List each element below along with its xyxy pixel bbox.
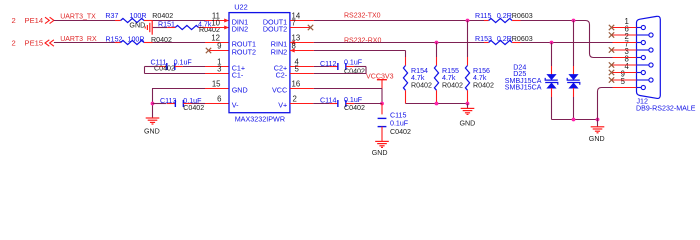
svg-text:R37: R37	[105, 12, 118, 20]
pin 1 stub	[205, 66, 229, 68]
svg-text:0.1uF: 0.1uF	[344, 59, 363, 67]
resistor R152 100R R0402	[115, 42, 121, 44]
connector J12 DB9 shell	[637, 16, 661, 98]
ground below pull resistors	[467, 104, 469, 109]
pin 6 stub	[205, 103, 229, 105]
svg-text:R0402: R0402	[152, 12, 173, 20]
junction D25 rail	[572, 118, 576, 122]
resistor R37 100R R0402	[115, 20, 121, 22]
pin 2 stub	[290, 103, 313, 105]
resistor R156 4.7k R0402	[467, 21, 469, 58]
svg-text:GND: GND	[372, 149, 388, 157]
svg-text:GND: GND	[232, 86, 248, 95]
svg-text:0.2R: 0.2R	[497, 35, 512, 43]
diode D25 SMBJ15CA	[573, 21, 575, 67]
svg-text:15: 15	[212, 79, 221, 88]
pin 14 stub	[290, 20, 314, 22]
wire UART3_TX	[54, 20, 115, 22]
capacitor C112 0.1uF C0402	[314, 66, 330, 68]
resistor R154 4.7k R0402	[405, 57, 407, 66]
svg-text:2: 2	[12, 16, 16, 25]
svg-text:R153: R153	[475, 35, 492, 43]
svg-text:0.1uF: 0.1uF	[174, 58, 193, 66]
svg-text:V+: V+	[278, 101, 287, 110]
wire R115 to connector	[521, 20, 586, 22]
wire pin 15 to ground	[152, 88, 205, 90]
no-connect marks on J12	[609, 25, 614, 30]
svg-text:10: 10	[211, 18, 220, 27]
wire R37 to pin 11	[153, 20, 206, 22]
op-amp U22 MAX3232IPWR body	[229, 13, 290, 113]
svg-text:100R: 100R	[130, 12, 147, 20]
pin 15 stub	[205, 88, 229, 90]
resistor R155 4.7k R0402	[436, 43, 438, 58]
svg-text:16: 16	[292, 79, 301, 88]
svg-text:4: 4	[624, 62, 629, 71]
junction R156 tap	[466, 19, 470, 23]
svg-text:GND: GND	[460, 120, 476, 128]
wire C112 right loop	[365, 67, 367, 74]
resistor R151 4.7k R0402	[153, 27, 167, 29]
wire pin 5 to rail	[598, 88, 613, 120]
capacitor C113 0.1uF C0402	[153, 103, 167, 105]
connector pin stubs	[612, 27, 637, 29]
svg-text:RS232-RX0: RS232-RX0	[344, 37, 381, 44]
svg-text:5: 5	[621, 77, 626, 86]
pin 12 stub	[205, 42, 229, 44]
svg-text:PE15: PE15	[25, 39, 44, 48]
svg-text:C0402: C0402	[154, 65, 175, 73]
svg-text:3: 3	[217, 64, 221, 73]
ground GND below pin 15	[146, 117, 160, 119]
pin 16 stub	[290, 88, 314, 90]
svg-text:DIN2: DIN2	[232, 25, 248, 34]
svg-text:C1-: C1-	[232, 71, 244, 80]
svg-text:V-: V-	[232, 101, 239, 110]
wire pin 16 to VCC	[314, 88, 382, 90]
pin 8 stub with input arrow	[290, 50, 314, 52]
svg-text:R0402: R0402	[411, 82, 432, 90]
pin 10 stub with input arrow	[205, 27, 229, 29]
wire TX0 down to pin3	[586, 21, 613, 58]
pin 11 stub with input arrow	[205, 20, 229, 22]
pin 9 stub with no-connect	[209, 50, 230, 52]
svg-text:R0402: R0402	[473, 82, 494, 90]
svg-text:R115: R115	[475, 12, 491, 20]
svg-text:C113: C113	[160, 97, 176, 105]
svg-text:8: 8	[292, 41, 296, 50]
capacitor C111 0.1uF C0402	[159, 66, 167, 68]
junction rail R156	[466, 102, 470, 106]
junction C113-GND	[151, 102, 155, 106]
svg-text:C112: C112	[320, 60, 336, 68]
svg-text:0.2R: 0.2R	[497, 12, 512, 20]
svg-text:5: 5	[295, 64, 300, 73]
svg-text:C0402: C0402	[183, 104, 204, 112]
junction D25 tap	[572, 19, 576, 23]
svg-text:C114: C114	[320, 97, 336, 105]
resistor R115 0.2R R0603	[484, 20, 489, 22]
junction V+ node	[380, 102, 384, 106]
svg-text:9: 9	[217, 41, 221, 50]
pin 13 stub with input arrow	[290, 42, 314, 44]
wire resistor bottom rail	[406, 103, 468, 105]
wire RS232-RX0	[314, 42, 484, 44]
svg-text:PE14: PE14	[25, 16, 44, 25]
svg-text:R151: R151	[158, 21, 175, 29]
ground below rail	[597, 120, 599, 127]
capacitor C115 0.1uF C0402	[381, 104, 383, 115]
connector pin circles	[637, 27, 642, 29]
svg-text:RS232-TX0: RS232-TX0	[344, 13, 381, 20]
svg-text:R0402: R0402	[442, 82, 463, 90]
wire UART3_RX	[54, 42, 115, 44]
junction R155 tap	[435, 41, 439, 45]
wire C111 left loop	[145, 66, 159, 68]
svg-text:C2-: C2-	[276, 71, 288, 80]
pin 3 stub	[205, 73, 229, 75]
junction rail R155	[435, 102, 439, 106]
svg-text:DOUT2: DOUT2	[263, 25, 287, 34]
ground below C115	[375, 140, 389, 142]
svg-text:0.1uF: 0.1uF	[390, 120, 409, 128]
svg-text:RIN2: RIN2	[271, 48, 287, 57]
pin 4 stub	[290, 66, 314, 68]
svg-text:R0603: R0603	[512, 12, 533, 20]
wire diode ground rail	[552, 119, 598, 121]
svg-text:100R: 100R	[128, 35, 145, 43]
svg-text:7: 7	[292, 18, 296, 27]
svg-text:C0402: C0402	[344, 68, 365, 76]
wire C111 to pin 1	[183, 66, 205, 68]
svg-text:SMBJ15CA: SMBJ15CA	[505, 83, 542, 91]
svg-text:GND: GND	[129, 21, 145, 29]
svg-text:R0603: R0603	[512, 35, 533, 43]
svg-text:6: 6	[217, 94, 221, 103]
svg-text:VCC: VCC	[272, 86, 287, 95]
resistor R153 0.2R R0603	[484, 42, 489, 44]
wire R153 to connector pin2	[521, 42, 613, 44]
pin 7 stub with no-connect	[290, 27, 311, 29]
svg-text:2: 2	[293, 94, 297, 103]
wire R152 to pin 12	[153, 42, 206, 44]
junction D24 tap	[550, 41, 554, 45]
wire pin 8 to R154	[314, 50, 406, 52]
svg-text:DB9-RS232-MALE: DB9-RS232-MALE	[636, 105, 696, 113]
svg-text:U22: U22	[234, 2, 248, 11]
svg-text:2: 2	[12, 39, 16, 48]
svg-text:GND: GND	[144, 128, 160, 136]
svg-text:R152: R152	[106, 35, 123, 43]
svg-text:GND: GND	[589, 135, 605, 143]
svg-text:C0402: C0402	[344, 104, 365, 112]
pin 5 stub	[290, 73, 314, 75]
capacitor C114 0.1uF C0402	[313, 103, 329, 105]
svg-text:UART3_TX: UART3_TX	[60, 14, 96, 21]
junction pin5 rail	[596, 118, 600, 122]
svg-text:C115: C115	[390, 112, 406, 120]
svg-text:C0402: C0402	[390, 128, 411, 136]
svg-text:MAX3232IPWR: MAX3232IPWR	[235, 115, 285, 124]
wire RS232-TX0	[314, 20, 484, 22]
diode D24 SMBJ15CA	[551, 43, 553, 67]
svg-text:ROUT2: ROUT2	[232, 48, 256, 57]
